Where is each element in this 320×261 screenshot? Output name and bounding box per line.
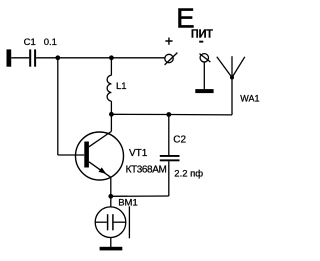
capacitor C2 <box>160 155 180 161</box>
wire C2 top <box>168 115 170 156</box>
node A (C1 / base branch) <box>55 55 60 60</box>
wire - terminal to ground <box>203 62 205 89</box>
microphone BM1 <box>95 206 129 238</box>
wire C2 return to emitter node <box>111 195 169 197</box>
ground (microphone) <box>100 247 123 251</box>
svg-text:2.2 пф: 2.2 пф <box>174 169 203 180</box>
node D (C2 branch) <box>166 112 171 117</box>
node E (emitter / C2 return / mic) <box>108 194 113 199</box>
wire C2 bottom <box>168 161 170 196</box>
transistor VT1 <box>76 131 124 180</box>
wire emitter down <box>110 177 112 196</box>
label - <box>199 41 203 43</box>
node C (L1 / collector / output rail) <box>109 112 114 117</box>
input terminal bar <box>7 49 12 66</box>
svg-text:L1: L1 <box>116 81 127 92</box>
antenna WA1 <box>217 56 245 115</box>
svg-text:пит: пит <box>191 24 213 41</box>
svg-text:BM1: BM1 <box>118 198 138 209</box>
wire top rail to + terminal <box>111 57 164 59</box>
wire top rail to L1 node <box>58 57 112 59</box>
terminal + (Eпит plus) <box>165 53 178 65</box>
ground (power minus) <box>195 89 213 93</box>
wire C1 to node A <box>36 57 58 59</box>
wire node E to microphone <box>110 196 112 207</box>
wire output rail to antenna <box>169 114 232 116</box>
svg-text:+: + <box>165 32 173 48</box>
wire node A down to base level <box>57 58 59 155</box>
wire microphone to ground <box>110 238 112 248</box>
wire to transistor base <box>58 154 85 156</box>
capacitor C1 <box>29 49 36 66</box>
svg-text:C2: C2 <box>173 135 186 146</box>
wire input to C1 <box>11 57 29 59</box>
svg-text:VT1: VT1 <box>129 148 148 159</box>
inductor L1 <box>107 58 111 115</box>
wire output rail to C2 node <box>111 113 168 115</box>
terminal - (Eпит minus) <box>200 54 211 62</box>
svg-text:0.1: 0.1 <box>44 37 57 48</box>
svg-text:WA1: WA1 <box>240 94 259 104</box>
node B (top of L1) <box>109 55 114 60</box>
svg-text:КТ368АМ: КТ368АМ <box>126 164 167 175</box>
wire collector <box>110 114 112 131</box>
svg-text:C1: C1 <box>24 37 36 48</box>
